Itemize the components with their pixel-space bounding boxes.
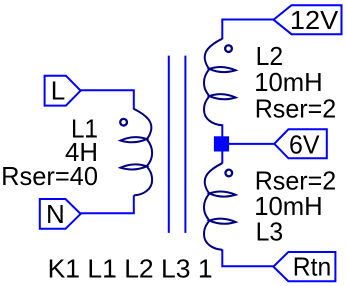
port flag 12V xyxy=(274,5,342,34)
wire N to L1 xyxy=(81,195,134,213)
wire junction to 6V xyxy=(228,143,274,145)
inductor L3 xyxy=(204,163,236,250)
port flag 12V label 1-foot xyxy=(293,27,300,29)
label L1 name 1-foot xyxy=(86,135,94,137)
transformer core line 2 xyxy=(184,56,186,233)
svg-text:N: N xyxy=(46,199,65,229)
label L3 10mH 1-foot xyxy=(256,213,264,215)
wire L3 to Rtn xyxy=(222,249,273,266)
wire L to L1 xyxy=(81,90,134,109)
inductor L2 xyxy=(204,39,236,126)
node junction 6V xyxy=(214,136,229,151)
wire junction to L3 xyxy=(221,150,223,164)
svg-text:6V: 6V xyxy=(289,129,320,159)
svg-text:Rtn: Rtn xyxy=(293,251,332,281)
svg-text:10mH: 10mH xyxy=(254,67,323,97)
inductor L3 phase dot xyxy=(225,170,232,177)
port flag Rtn xyxy=(273,252,335,281)
port flag N xyxy=(40,199,81,229)
transformer core line 1 xyxy=(168,56,170,233)
svg-text:12V: 12V xyxy=(290,5,339,35)
directive 1-feet xyxy=(67,275,75,277)
inductor L1 phase dot xyxy=(120,119,127,126)
svg-text:Rser=2: Rser=2 xyxy=(255,94,337,124)
wire 12V to L2 xyxy=(222,20,273,40)
svg-text:K1 L1 L2 L3 1: K1 L1 L2 L3 1 xyxy=(48,253,213,283)
svg-text:Rser=40: Rser=40 xyxy=(1,161,98,191)
port flag L xyxy=(45,76,81,106)
inductor L2 phase dot xyxy=(225,45,232,52)
port flag 6V xyxy=(274,129,327,158)
svg-text:L3: L3 xyxy=(256,217,284,247)
label L2 10mH 1-foot xyxy=(256,89,264,91)
svg-text:L: L xyxy=(51,76,65,106)
wire L2 to junction xyxy=(221,124,223,144)
inductor L1 xyxy=(120,109,152,195)
